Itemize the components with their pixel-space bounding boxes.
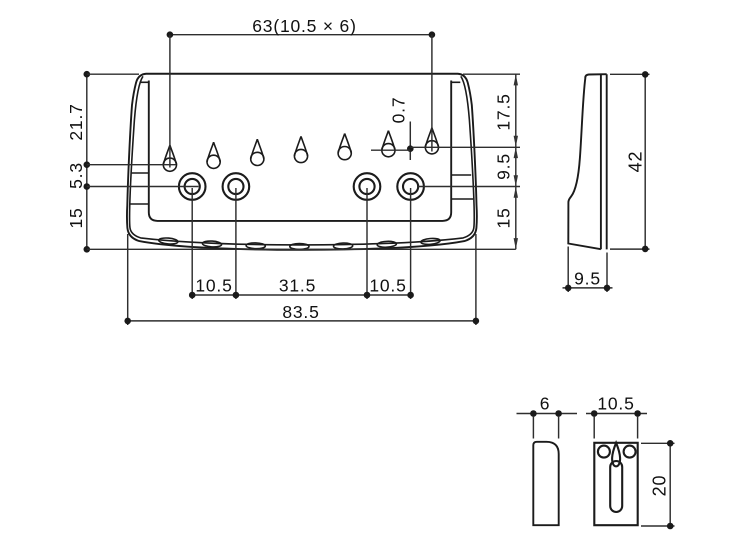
string hole T6 xyxy=(382,131,395,157)
saddle slot xyxy=(610,461,622,512)
string hole T5 xyxy=(338,134,351,160)
dim 9.5 exts xyxy=(568,247,607,293)
screw hole S3 xyxy=(354,173,381,200)
line through T6 xyxy=(371,149,410,151)
ext from S4 xyxy=(417,186,520,188)
string hole T4 xyxy=(294,136,307,162)
ext 83.5 left xyxy=(127,234,129,325)
ext top right xyxy=(463,73,520,75)
profile plate front line xyxy=(600,74,602,249)
string hole T3 xyxy=(251,139,264,165)
screw leader S1 down xyxy=(191,188,193,299)
bottom flange hole E7 xyxy=(421,238,441,245)
svg-text:0.7: 0.7 xyxy=(389,97,409,124)
screw hole S2 xyxy=(223,173,250,200)
saddle screw hole left xyxy=(598,446,610,458)
string hole T7 xyxy=(425,128,438,154)
bottom flange hole E3 xyxy=(246,243,265,249)
ext 83.5 right xyxy=(475,234,477,325)
body shell inner line (sheet thickness) xyxy=(130,76,475,245)
dim 0.7 vertical xyxy=(409,122,411,161)
dim 10.5 line xyxy=(586,413,647,415)
bottom flange hole E2 xyxy=(202,241,221,248)
saddle screw hole right xyxy=(624,446,636,458)
svg-text:15: 15 xyxy=(494,207,514,228)
dim 6 exts xyxy=(533,416,558,439)
ext top left xyxy=(87,73,139,75)
svg-text:10.5: 10.5 xyxy=(195,276,232,296)
profile outline xyxy=(568,77,601,249)
string hole T1 xyxy=(163,145,176,171)
svg-text:9.5: 9.5 xyxy=(494,153,514,180)
dim 20 exts xyxy=(641,443,675,526)
ext to T1 center xyxy=(87,164,176,166)
svg-text:21.7: 21.7 xyxy=(66,103,86,140)
dim 20 line xyxy=(669,443,671,526)
svg-text:9.5: 9.5 xyxy=(574,269,601,289)
svg-text:20: 20 xyxy=(650,475,670,497)
bottom flange hole E1 xyxy=(158,237,178,244)
dim 42 line xyxy=(644,74,646,249)
screw leader S2 down xyxy=(235,188,237,299)
svg-text:6: 6 xyxy=(540,394,551,414)
dim 9.5 line xyxy=(563,287,613,289)
right chain line xyxy=(515,74,517,249)
leader T1 up xyxy=(169,35,171,168)
ext bottom long xyxy=(87,248,516,250)
dim 6 line xyxy=(517,413,578,415)
svg-text:17.5: 17.5 xyxy=(494,93,514,130)
screw hole S4 xyxy=(397,173,424,200)
dim 42 exts xyxy=(610,74,650,249)
profile plate back line xyxy=(606,74,608,249)
left chain line xyxy=(86,74,88,249)
screw hole S1 xyxy=(179,173,206,200)
svg-text:31.5: 31.5 xyxy=(279,276,316,296)
arrows right chain xyxy=(514,74,518,85)
svg-text:83.5: 83.5 xyxy=(282,302,319,322)
svg-text:10.5: 10.5 xyxy=(597,394,634,414)
dim line 10.5/31.5/10.5 xyxy=(192,294,410,296)
line through T7 to right chain xyxy=(410,146,520,148)
saddle front outline xyxy=(594,443,637,525)
svg-text:15: 15 xyxy=(66,207,86,228)
plate top ledge right xyxy=(451,81,460,83)
bottom flange hole E4 xyxy=(290,244,309,250)
svg-text:42: 42 xyxy=(626,151,646,173)
body outer outline xyxy=(127,74,477,250)
screw leader S4 down xyxy=(410,188,412,299)
inner top-plate outline xyxy=(149,81,451,221)
right wall step line upper xyxy=(451,174,471,176)
plate top ledge left xyxy=(140,81,149,83)
left wall step line upper xyxy=(132,172,149,174)
dim 63(10.5x6) line xyxy=(170,34,432,36)
screw leader S3 down xyxy=(366,188,368,299)
svg-text:5.3: 5.3 xyxy=(66,162,86,189)
ext to S1 center xyxy=(87,186,199,188)
string hole T2 xyxy=(207,142,220,168)
left wall step line lower xyxy=(130,203,149,205)
leader T7 up xyxy=(431,35,433,152)
dim 10.5 exts xyxy=(594,416,637,439)
right wall step line lower xyxy=(451,198,473,200)
bottom flange hole E5 xyxy=(333,243,352,249)
saddle side outline xyxy=(533,442,558,525)
profile top edge xyxy=(585,74,607,77)
saddle string notch xyxy=(612,443,620,467)
bottom flange hole E6 xyxy=(377,241,396,248)
dim line 83.5 xyxy=(128,320,476,322)
svg-text:10.5: 10.5 xyxy=(369,276,406,296)
svg-text:63(10.5 × 6): 63(10.5 × 6) xyxy=(252,16,356,36)
